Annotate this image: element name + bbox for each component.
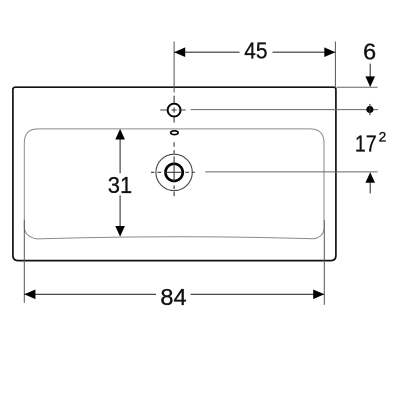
drain axis reference line (to right margin) xyxy=(205,171,377,173)
arrowhead 45 right xyxy=(324,47,335,57)
extension line 45 right (deck right edge up) xyxy=(334,42,336,89)
svg-text:84: 84 xyxy=(160,284,186,310)
faucet hole centerline vertical xyxy=(173,96,175,123)
arrowhead 6 down xyxy=(365,76,375,87)
dot vertical stub xyxy=(369,104,371,115)
drain centerline horizontal xyxy=(151,171,195,173)
deck top edge reference line (right) xyxy=(337,86,378,88)
arrowhead 45 left xyxy=(174,47,185,57)
arrowhead 31 up xyxy=(115,129,125,140)
washbasin inner bowl outline xyxy=(24,129,324,239)
dimension line 31 upper segment xyxy=(119,139,121,173)
drain outer circle xyxy=(156,154,192,190)
overflow slot xyxy=(171,131,179,135)
dimension 6 stub xyxy=(369,64,371,78)
washbasin outer deck outline xyxy=(13,87,336,260)
arrowhead 31 down xyxy=(115,226,125,237)
svg-text:17: 17 xyxy=(355,131,377,157)
dimension 17 stub xyxy=(369,183,371,194)
svg-text:6: 6 xyxy=(363,39,376,65)
extension line 84 right xyxy=(323,220,325,305)
arrowhead 84 left xyxy=(24,290,35,300)
dimension dot on faucet axis xyxy=(366,106,373,113)
dimension line 45 xyxy=(174,51,335,53)
faucet hole centerline horizontal xyxy=(160,109,185,111)
svg-text:45: 45 xyxy=(244,38,267,64)
extension line 45 left (from faucet axis up) xyxy=(173,42,175,93)
dimension line 31 lower segment xyxy=(119,195,121,226)
extension line 84 left xyxy=(23,220,25,303)
dimension line 84 xyxy=(24,293,324,295)
svg-text:31: 31 xyxy=(108,172,132,198)
drain inner circle xyxy=(166,164,183,181)
drain centerline vertical xyxy=(173,142,175,196)
arrowhead 84 right xyxy=(313,290,324,300)
faucet hole xyxy=(168,104,181,117)
arrowhead 17 up xyxy=(365,172,375,183)
faucet axis reference line (to right margin) xyxy=(191,109,378,111)
svg-text:2: 2 xyxy=(379,130,387,145)
